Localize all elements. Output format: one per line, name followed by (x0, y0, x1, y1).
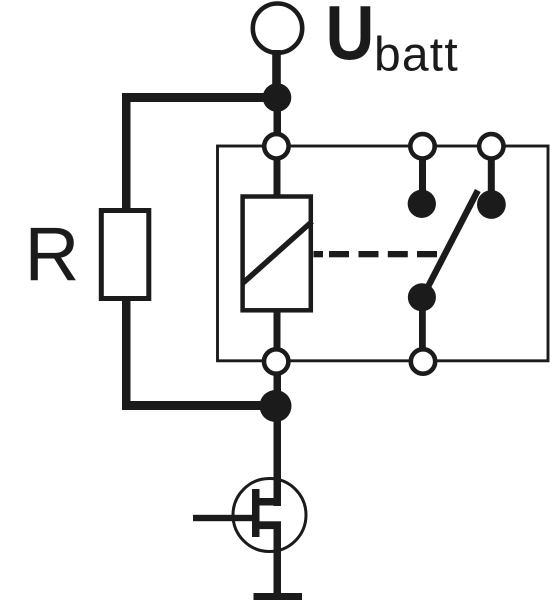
wire top horizontal (122, 93, 277, 102)
transistor source arm (252, 521, 281, 529)
relay pin terminal NO top (479, 134, 503, 158)
wire terminal to top junction (272, 50, 281, 98)
wire coil to bottom pin (274, 310, 281, 348)
terminal Ubatt (253, 4, 302, 53)
relay box outline (218, 146, 549, 361)
relay pin terminal common bottom (411, 349, 435, 373)
svg-text:R: R (25, 212, 80, 297)
wire left vertical lower (122, 299, 131, 410)
resistor R1 body (101, 211, 149, 299)
ground (254, 593, 303, 600)
dashed actuation line (314, 251, 438, 257)
stem common (419, 297, 426, 348)
svg-text:U: U (326, 0, 375, 76)
contact common (408, 283, 436, 311)
transistor gate lead (193, 515, 256, 521)
junction node top (263, 83, 292, 112)
wire drain from junction (274, 406, 282, 506)
wire top junction to coil pin (274, 97, 282, 137)
wire bottom pin to bottom junction (274, 373, 282, 408)
stem NC (419, 158, 426, 198)
label Ubatt (326, 0, 459, 81)
wire bottom horizontal (122, 401, 277, 410)
contact NC (408, 190, 436, 218)
relay pin terminal coil bottom (264, 349, 288, 373)
wire coil pin to coil (274, 160, 281, 196)
svg-text:batt: batt (374, 29, 459, 82)
wire source to ground (274, 529, 282, 595)
wire left vertical upper (122, 93, 131, 210)
relay pin terminal NC top (410, 134, 434, 158)
relay coil K1 (243, 197, 311, 311)
switch lever (423, 191, 478, 298)
contact NO (477, 190, 506, 219)
transistor drain arm (252, 498, 281, 506)
transistor gate electrode bar (252, 489, 260, 537)
relay pin terminal coil top (264, 134, 288, 158)
stem NO (488, 158, 495, 198)
junction node bottom (260, 390, 292, 422)
transistor Q1 body (233, 479, 306, 552)
coil diagonal (243, 222, 312, 284)
